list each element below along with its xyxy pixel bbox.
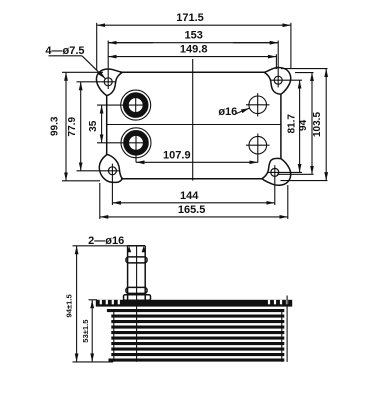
plate midline <box>106 124 281 126</box>
corner hole top-right <box>271 41 302 88</box>
hidden pipe line right <box>286 296 288 362</box>
port bottom (oil port) <box>97 128 151 163</box>
port top (oil port) <box>97 90 151 120</box>
plate right edge <box>280 94 282 159</box>
pipe bead upper <box>126 257 147 263</box>
dimension 35 <box>88 105 102 143</box>
corner hole bottom-left <box>77 164 120 205</box>
plate left edge <box>106 95 108 155</box>
dimension 149.8 <box>108 44 276 70</box>
corner hole top-left <box>77 41 116 90</box>
svg-text:153: 153 <box>185 30 203 42</box>
label 4-dia7.5 <box>45 45 105 79</box>
svg-text:94±1.5: 94±1.5 <box>65 294 74 318</box>
corner lobe bottom-right <box>262 158 291 185</box>
svg-text:53±1.5: 53±1.5 <box>81 319 90 343</box>
plate top edge <box>120 71 266 73</box>
dimension 165.5 <box>100 183 288 219</box>
plate bottom edge <box>121 178 264 180</box>
svg-text:144: 144 <box>180 190 199 202</box>
dimension 99.3 <box>49 72 103 181</box>
small hole right-bottom <box>246 134 270 163</box>
corner hole bottom-right <box>268 165 302 205</box>
dimension 94+-1.5 <box>65 246 113 362</box>
label dia16 <box>218 106 249 118</box>
plate stack <box>107 309 284 362</box>
dimension 144 <box>112 190 274 203</box>
dimension 171.5 <box>97 12 291 70</box>
pipe base collar <box>124 295 151 300</box>
vertical centerline <box>192 59 194 181</box>
svg-text:ø16: ø16 <box>218 106 237 118</box>
svg-text:4—ø7.5: 4—ø7.5 <box>45 45 84 57</box>
dimension 53+-1.5 <box>81 300 97 362</box>
small hole right-top <box>246 93 270 116</box>
svg-text:77.9: 77.9 <box>67 117 78 137</box>
dimension 94 <box>277 73 314 175</box>
dimension 153 <box>108 30 278 43</box>
svg-text:165.5: 165.5 <box>178 204 206 216</box>
svg-text:99.3: 99.3 <box>49 116 60 136</box>
svg-text:103.5: 103.5 <box>312 112 323 137</box>
svg-text:94: 94 <box>298 119 309 131</box>
svg-text:35: 35 <box>88 120 99 132</box>
dimension 107.9 <box>136 150 258 163</box>
dimension 81.7 <box>286 80 299 172</box>
svg-text:81.7: 81.7 <box>286 114 297 134</box>
svg-text:171.5: 171.5 <box>176 12 204 24</box>
svg-text:2—ø16: 2—ø16 <box>88 235 124 247</box>
side view pipe <box>127 246 145 300</box>
svg-text:149.8: 149.8 <box>180 44 208 56</box>
pipe bead lower <box>126 287 147 293</box>
mounting rail <box>96 300 292 307</box>
dimension 77.9 <box>67 82 81 171</box>
corner lobe top-right <box>264 68 291 95</box>
svg-text:107.9: 107.9 <box>163 150 191 162</box>
pipe centerline <box>136 246 138 362</box>
corner lobe bottom-left <box>99 155 122 183</box>
dimension 103.5 <box>281 69 328 181</box>
label 2-dia16 <box>73 235 128 247</box>
corner lobe top-left <box>96 69 122 96</box>
